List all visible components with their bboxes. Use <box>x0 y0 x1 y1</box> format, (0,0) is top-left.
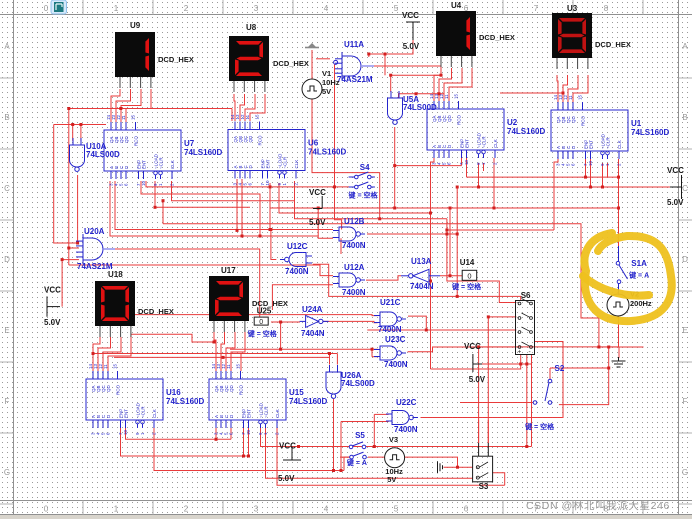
svg-text:键 = 空格: 键 = 空格 <box>348 191 379 200</box>
svg-text:5V: 5V <box>387 475 396 484</box>
svg-text:~CLR: ~CLR <box>606 137 611 149</box>
svg-text:DCD_HEX: DCD_HEX <box>138 307 174 316</box>
svg-text:U1: U1 <box>631 119 642 128</box>
svg-text:15: 15 <box>113 363 118 369</box>
svg-text:QD: QD <box>571 115 576 123</box>
svg-text:F: F <box>683 397 688 406</box>
svg-text:2: 2 <box>184 4 189 13</box>
svg-text:VCC: VCC <box>464 342 481 351</box>
svg-text:U16: U16 <box>166 388 181 397</box>
svg-text:5.0V: 5.0V <box>278 474 295 483</box>
svg-text:1: 1 <box>114 4 119 13</box>
svg-text:U24A: U24A <box>302 305 323 314</box>
svg-text:10Hz: 10Hz <box>322 78 340 87</box>
svg-text:-: - <box>529 349 531 356</box>
svg-text:~CLR: ~CLR <box>264 406 269 418</box>
svg-text:U4: U4 <box>451 1 462 10</box>
svg-text:D: D <box>682 255 688 264</box>
svg-text:QD: QD <box>248 135 253 143</box>
svg-text:10: 10 <box>123 429 128 435</box>
svg-text:7400N: 7400N <box>285 267 309 276</box>
svg-text:B: B <box>682 113 687 122</box>
svg-text:7: 7 <box>534 4 539 13</box>
svg-text:74LS160D: 74LS160D <box>166 397 204 406</box>
svg-text:74LS160D: 74LS160D <box>507 127 545 136</box>
svg-text:S2: S2 <box>555 364 565 373</box>
svg-text:U6: U6 <box>308 139 319 148</box>
svg-text:15: 15 <box>236 363 241 369</box>
svg-text:键 = 空格: 键 = 空格 <box>247 329 278 338</box>
svg-text:74LS160D: 74LS160D <box>289 397 327 406</box>
svg-text:7400N: 7400N <box>394 425 418 434</box>
svg-text:U12A: U12A <box>344 263 365 272</box>
svg-text:DCD_HEX: DCD_HEX <box>158 55 194 64</box>
svg-text:10: 10 <box>141 180 146 186</box>
svg-text:G: G <box>682 468 688 477</box>
svg-text:11: 11 <box>245 114 250 119</box>
svg-text:0: 0 <box>44 4 49 13</box>
svg-text:RCO: RCO <box>258 135 263 145</box>
svg-text:C: C <box>682 184 688 193</box>
svg-text:5.0V: 5.0V <box>469 375 486 384</box>
svg-text:CLK: CLK <box>152 409 157 418</box>
svg-text:11: 11 <box>444 94 449 99</box>
svg-text:~CLR: ~CLR <box>283 156 288 168</box>
svg-text:E: E <box>682 326 687 335</box>
svg-text:U25: U25 <box>257 307 272 316</box>
svg-text:U17: U17 <box>221 266 236 275</box>
svg-text:QD: QD <box>229 384 234 392</box>
svg-text:QD: QD <box>106 384 111 392</box>
svg-text:10: 10 <box>265 180 270 186</box>
svg-text:DCD_HEX: DCD_HEX <box>595 40 631 49</box>
svg-text:QD: QD <box>124 135 129 143</box>
svg-text:11: 11 <box>103 364 108 369</box>
svg-text:RCO: RCO <box>581 116 586 126</box>
svg-text:U14: U14 <box>460 258 475 267</box>
svg-text:U7: U7 <box>184 139 195 148</box>
svg-text:键 = A: 键 = A <box>346 458 367 467</box>
svg-text:8: 8 <box>604 4 609 13</box>
svg-text:E: E <box>4 326 9 335</box>
svg-text:3: 3 <box>254 4 259 13</box>
svg-text:CLK: CLK <box>493 139 498 148</box>
svg-text:74LS160D: 74LS160D <box>631 128 669 137</box>
svg-text:CLK: CLK <box>170 160 175 169</box>
svg-text:0: 0 <box>259 319 263 326</box>
svg-text:S5: S5 <box>355 431 365 440</box>
svg-text:ENT: ENT <box>247 409 252 418</box>
svg-text:74LS00D: 74LS00D <box>86 150 120 159</box>
svg-text:DCD_HEX: DCD_HEX <box>479 33 515 42</box>
svg-text:ENT: ENT <box>124 409 129 418</box>
svg-text:74LS160D: 74LS160D <box>184 148 222 157</box>
svg-text:U8: U8 <box>246 23 257 32</box>
svg-text:1: 1 <box>114 505 119 514</box>
svg-text:B: B <box>4 113 9 122</box>
svg-text:74AS21M: 74AS21M <box>337 75 373 84</box>
svg-text:74LS00D: 74LS00D <box>403 103 437 112</box>
svg-text:5.0V: 5.0V <box>403 42 420 51</box>
svg-text:D: D <box>4 255 10 264</box>
svg-text:6: 6 <box>464 505 469 514</box>
svg-text:7404N: 7404N <box>301 329 325 338</box>
svg-text:ENT: ENT <box>465 139 470 148</box>
svg-text:10: 10 <box>588 160 593 166</box>
svg-text:10: 10 <box>464 159 469 165</box>
svg-text:7400N: 7400N <box>342 288 366 297</box>
svg-text:V3: V3 <box>389 435 398 444</box>
svg-text:11: 11 <box>568 95 573 100</box>
svg-text:7400N: 7400N <box>384 360 408 369</box>
svg-text:S4: S4 <box>360 163 370 172</box>
svg-text:U12B: U12B <box>344 217 365 226</box>
svg-text:200Hz: 200Hz <box>630 299 652 308</box>
svg-text:A: A <box>4 42 10 51</box>
svg-text:5: 5 <box>394 505 399 514</box>
svg-text:3: 3 <box>254 505 259 514</box>
svg-text:V1: V1 <box>322 69 331 78</box>
svg-text:~CLR: ~CLR <box>141 406 146 418</box>
svg-text:QD: QD <box>447 114 452 122</box>
svg-text:VCC: VCC <box>44 286 61 295</box>
svg-text:A: A <box>682 42 688 51</box>
svg-text:5.0V: 5.0V <box>667 198 684 207</box>
svg-text:ENT: ENT <box>142 160 147 169</box>
svg-text:F: F <box>5 397 10 406</box>
svg-text:CLK: CLK <box>275 409 280 418</box>
svg-text:10: 10 <box>246 429 251 435</box>
svg-text:5.0V: 5.0V <box>309 218 326 227</box>
svg-text:11: 11 <box>226 364 231 369</box>
svg-text:U23C: U23C <box>385 335 406 344</box>
svg-text:DCD_HEX: DCD_HEX <box>273 59 309 68</box>
svg-text:G: G <box>4 468 10 477</box>
svg-text:11: 11 <box>121 115 126 120</box>
svg-text:RCO: RCO <box>116 385 121 395</box>
svg-text:74AS21M: 74AS21M <box>77 262 113 271</box>
svg-text:5V: 5V <box>322 87 331 96</box>
svg-text:CLK: CLK <box>294 160 299 169</box>
svg-text:U22C: U22C <box>396 398 417 407</box>
svg-text:~CLR: ~CLR <box>482 136 487 148</box>
svg-text:U15: U15 <box>289 388 304 397</box>
svg-text:VCC: VCC <box>402 11 419 20</box>
svg-text:U2: U2 <box>507 118 518 127</box>
svg-text:0: 0 <box>44 505 49 514</box>
svg-text:ENT: ENT <box>589 140 594 149</box>
svg-text:5: 5 <box>394 4 399 13</box>
svg-text:RCO: RCO <box>457 115 462 125</box>
svg-text:15: 15 <box>255 114 260 120</box>
svg-text:2: 2 <box>184 505 189 514</box>
svg-text:7400N: 7400N <box>378 325 402 334</box>
svg-text:74LS160D: 74LS160D <box>308 148 346 157</box>
svg-text:U13A: U13A <box>411 257 432 266</box>
svg-text:RCO: RCO <box>239 385 244 395</box>
svg-text:74LS00D: 74LS00D <box>341 379 375 388</box>
svg-text:U11A: U11A <box>344 40 364 49</box>
svg-text:4: 4 <box>324 4 329 13</box>
svg-text:S3: S3 <box>479 482 489 491</box>
svg-text:15: 15 <box>578 94 583 100</box>
svg-text:U20A: U20A <box>84 227 105 236</box>
svg-text:键 = A: 键 = A <box>628 271 649 280</box>
svg-text:~CLR: ~CLR <box>159 157 164 169</box>
svg-text:U9: U9 <box>130 21 141 30</box>
svg-text:ENT: ENT <box>266 159 271 168</box>
svg-text:15: 15 <box>131 114 136 120</box>
svg-text:CSDN @林北叫我派大星246: CSDN @林北叫我派大星246 <box>526 499 670 512</box>
svg-text:VCC: VCC <box>309 188 326 197</box>
svg-text:7400N: 7400N <box>342 241 366 250</box>
svg-text:U3: U3 <box>567 4 578 13</box>
svg-text:7404N: 7404N <box>410 282 434 291</box>
svg-text:C: C <box>4 184 10 193</box>
svg-text:键 = 空格: 键 = 空格 <box>451 282 482 291</box>
svg-text:键 = 空格: 键 = 空格 <box>524 422 555 431</box>
svg-text:U12C: U12C <box>287 242 308 251</box>
svg-text:VCC: VCC <box>667 166 684 175</box>
svg-text:4: 4 <box>324 505 329 514</box>
svg-text:RCO: RCO <box>134 136 139 146</box>
svg-text:5.0V: 5.0V <box>44 318 61 327</box>
svg-text:CLK: CLK <box>617 140 622 149</box>
svg-text:S1A: S1A <box>631 259 647 268</box>
svg-text:U18: U18 <box>108 270 123 279</box>
svg-text:U21C: U21C <box>380 298 401 307</box>
svg-text:+: + <box>518 349 522 356</box>
svg-text:0: 0 <box>467 271 471 280</box>
svg-text:15: 15 <box>454 93 459 99</box>
svg-text:VCC: VCC <box>279 442 296 451</box>
